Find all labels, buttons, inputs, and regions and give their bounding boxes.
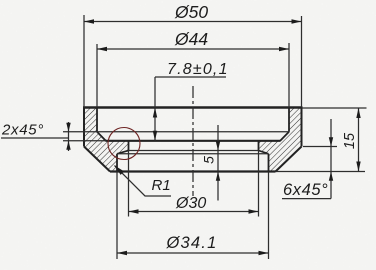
right O30 wall bbox=[258, 141, 260, 151]
O30 extension left bbox=[128, 151, 130, 217]
circle edge O44 chamfer top bbox=[97, 131, 289, 133]
2x45 upper arrow (down, outside) bbox=[66, 123, 70, 132]
left groove wall O34.1 bbox=[116, 154, 118, 172]
6x45 dim vertical bbox=[330, 119, 332, 199]
left bore wall O44 bbox=[96, 108, 98, 132]
O30 right arrow bbox=[249, 209, 259, 213]
2x45 dim line vertical bbox=[68, 122, 70, 151]
2x45 lower arrow (up, outside) bbox=[66, 141, 70, 150]
arrowheads bbox=[66, 19, 360, 255]
5 lower arrow (up, outside) bbox=[216, 172, 220, 181]
O50 left arrow bbox=[84, 19, 94, 23]
extension line O50 left bbox=[83, 15, 85, 108]
dimension line O44 bbox=[97, 48, 289, 50]
O30 extension right bbox=[258, 151, 260, 217]
hatched cut region left bbox=[84, 108, 129, 172]
6 upper arrow (down, outside) bbox=[329, 137, 333, 146]
svg-text:15: 15 bbox=[342, 132, 358, 149]
dimension line O50 bbox=[84, 21, 302, 23]
extension line O50 right bbox=[301, 16, 303, 108]
leader 7.8 vertical bbox=[154, 77, 156, 141]
right outer chamfer 6x45 bbox=[276, 147, 302, 172]
extension line O44 left bbox=[96, 44, 98, 108]
dimension line O34.1 bbox=[117, 252, 269, 254]
2x45 extension top bbox=[63, 131, 97, 133]
5 dim vertical bbox=[217, 125, 219, 201]
svg-text:7.8±0,1: 7.8±0,1 bbox=[167, 61, 229, 78]
svg-text:Ø44: Ø44 bbox=[174, 29, 208, 49]
dimension line O30 bbox=[129, 211, 259, 213]
2x45 shelf bbox=[1, 137, 69, 139]
circle edge groove bottom O34.1 bbox=[117, 153, 269, 155]
top face extension right for 15 bbox=[303, 107, 367, 109]
chamfer top extension right for 6 bbox=[303, 146, 337, 148]
hatched cut region right bbox=[259, 108, 302, 172]
O50 right arrow bbox=[292, 19, 302, 23]
svg-text:5: 5 bbox=[201, 156, 217, 164]
left groove shoulder bbox=[117, 151, 129, 154]
svg-text:Ø30: Ø30 bbox=[175, 195, 206, 212]
R1 leader arrow bbox=[115, 166, 125, 175]
O30 left arrow bbox=[129, 209, 139, 213]
right outer wall bbox=[301, 108, 303, 147]
2x45 extension bottom bbox=[63, 140, 106, 142]
circle edge groove top O30 bbox=[129, 150, 259, 152]
leader 7.8 underline bbox=[155, 76, 226, 78]
bottom face extension right bbox=[276, 171, 366, 173]
6x45 shelf bbox=[282, 198, 331, 200]
step face (counterbore bottom) bbox=[106, 140, 281, 142]
red highlight circle bbox=[108, 128, 140, 160]
O34.1 extension left bbox=[116, 172, 118, 260]
O44 left arrow bbox=[97, 47, 107, 51]
svg-text:6x45°: 6x45° bbox=[283, 181, 328, 199]
left bore chamfer 2x45 bbox=[97, 132, 106, 141]
top face bbox=[83, 106, 303, 108]
O34.1 right arrow bbox=[259, 251, 269, 255]
right bore wall O44 bbox=[288, 108, 290, 132]
right groove wall O34.1 bbox=[268, 154, 270, 172]
7.8 top arrow (up) bbox=[153, 108, 157, 118]
7.8 bottom arrow (down) bbox=[153, 131, 157, 141]
O34.1 extension right bbox=[268, 172, 270, 260]
bottom face bbox=[110, 170, 276, 172]
centerline bbox=[192, 86, 194, 196]
15 dim vertical bbox=[358, 108, 360, 172]
right groove shoulder bbox=[259, 151, 269, 154]
O44 right arrow bbox=[279, 47, 289, 51]
15 bottom arrow (down) bbox=[356, 162, 360, 172]
svg-text:R1: R1 bbox=[152, 177, 171, 194]
svg-text:Ø34.1: Ø34.1 bbox=[166, 234, 218, 252]
5 upper arrow (down, outside) bbox=[216, 141, 220, 150]
6 lower arrow (up, outside) bbox=[329, 172, 333, 181]
left outer wall bbox=[83, 108, 85, 147]
svg-text:Ø50: Ø50 bbox=[174, 2, 208, 22]
svg-text:2x45°: 2x45° bbox=[1, 122, 44, 139]
right bore chamfer 2x45 bbox=[280, 132, 289, 141]
R1 leader bbox=[115, 166, 172, 197]
extension line O44 right bbox=[288, 43, 290, 108]
15 top arrow (up) bbox=[356, 108, 360, 118]
O34.1 left arrow bbox=[117, 251, 127, 255]
left outer chamfer 6x45 bbox=[84, 147, 110, 172]
left O30 wall bbox=[128, 141, 130, 151]
